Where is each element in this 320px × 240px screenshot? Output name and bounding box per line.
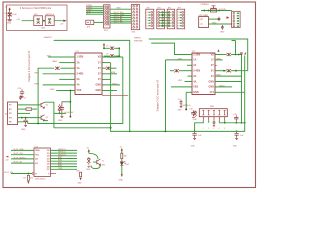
svg-text:O7: O7 bbox=[47, 169, 51, 171]
motor connector M1 bbox=[146, 7, 154, 28]
svg-text:GND: GND bbox=[193, 91, 199, 94]
svg-text:SLOT_SDA: SLOT_SDA bbox=[14, 148, 25, 151]
IC2 pin names left column bbox=[193, 53, 200, 94]
junction bbox=[241, 122, 243, 124]
svg-text:P3: P3 bbox=[9, 113, 12, 115]
svg-text:O3: O3 bbox=[47, 158, 51, 160]
svg-text:M4A: M4A bbox=[217, 74, 222, 77]
wire X2 pin5 bbox=[18, 122, 28, 124]
svg-text:Q2: Q2 bbox=[46, 117, 49, 119]
wire 3-4EN bbox=[43, 73, 75, 75]
svg-text:2A: 2A bbox=[193, 64, 196, 67]
svg-text:C18: C18 bbox=[189, 109, 194, 111]
svg-text:SDA: SDA bbox=[35, 149, 40, 152]
svg-text:M1B: M1B bbox=[111, 72, 116, 74]
wire GND right bbox=[102, 84, 120, 86]
svg-text:Stepper 2 DC motor pwr #2: Stepper 2 DC motor pwr #2 bbox=[156, 79, 160, 111]
junction bbox=[165, 131, 167, 133]
wire right row5 bbox=[215, 75, 242, 77]
X2 pin labels bbox=[9, 105, 12, 124]
connector SV2 pins bbox=[133, 5, 138, 28]
wire SLOT_A1 bbox=[110, 18, 131, 20]
servo module box bbox=[7, 5, 68, 31]
wire bbox=[60, 67, 75, 69]
svg-text:AIN1: AIN1 bbox=[58, 156, 62, 159]
capacitor C16 bbox=[240, 53, 246, 56]
jumper SERV1-3 box bbox=[45, 16, 54, 26]
wire PWRGND riser bbox=[244, 56, 246, 123]
svg-text:BIN2: BIN2 bbox=[35, 83, 40, 85]
svg-text:GND: GND bbox=[119, 179, 124, 181]
wire left row8 bbox=[186, 91, 192, 93]
svg-text:4: 4 bbox=[219, 128, 220, 130]
wire bbox=[54, 112, 66, 114]
svg-text:VDD: VDD bbox=[47, 55, 52, 57]
wire OUT3 bbox=[51, 155, 78, 157]
wire SLOT_A0 bbox=[110, 16, 131, 18]
LED1 bbox=[120, 161, 126, 165]
svg-text:3: 3 bbox=[213, 128, 214, 130]
svg-text:4Y: 4Y bbox=[98, 78, 101, 81]
wire riser to VS bbox=[118, 48, 120, 57]
wire bbox=[201, 10, 232, 12]
wire JP2 to SV1 bbox=[94, 21, 104, 23]
svg-text:GND: GND bbox=[86, 169, 91, 171]
svg-text:GND2: GND2 bbox=[219, 85, 225, 87]
connector SV1 pin circles bbox=[105, 6, 109, 25]
svg-text:4A: 4A bbox=[193, 80, 196, 83]
wire right row2 bbox=[215, 59, 223, 61]
capacitor C17 under pin3 bbox=[213, 120, 216, 126]
svg-text:P5: P5 bbox=[9, 122, 12, 124]
wire IC2 feed riser bbox=[165, 60, 167, 131]
junction bbox=[208, 10, 210, 12]
wire PWM3 bbox=[86, 10, 104, 12]
junction bbox=[118, 55, 120, 57]
svg-text:VSS: VSS bbox=[77, 89, 82, 92]
svg-text:T1: T1 bbox=[102, 161, 104, 163]
wire left row6 bbox=[185, 81, 193, 83]
svg-text:SLOT_EN: SLOT_EN bbox=[114, 22, 124, 24]
junction bbox=[103, 47, 105, 49]
wire bbox=[22, 20, 34, 22]
svg-text:4Y: 4Y bbox=[211, 75, 214, 78]
svg-text:GND1: GND1 bbox=[112, 83, 118, 85]
svg-text:3-4EN: 3-4EN bbox=[77, 73, 84, 76]
IC2 pin names right column bbox=[208, 53, 214, 94]
resistor R11 bbox=[121, 153, 123, 158]
wire drop to star ground bbox=[185, 92, 187, 109]
wire SLOT_SDA bbox=[110, 15, 131, 17]
wire bbox=[54, 20, 63, 22]
svg-text:5V: 5V bbox=[5, 7, 8, 9]
net arrow +5V left bbox=[6, 156, 9, 158]
junction bbox=[21, 117, 23, 119]
svg-text:GND: GND bbox=[193, 119, 198, 121]
ground bbox=[87, 166, 90, 167]
connector SV1 box bbox=[104, 5, 111, 28]
wire GND2 right bbox=[102, 90, 117, 92]
svg-text:GND: GND bbox=[212, 22, 217, 24]
supply arrow +5V bbox=[9, 9, 11, 11]
svg-text:4A: 4A bbox=[77, 84, 80, 87]
wire right riser bbox=[241, 55, 243, 123]
wire bbox=[114, 55, 119, 57]
svg-text:E: E bbox=[35, 173, 37, 175]
wire 4Y bbox=[102, 78, 111, 80]
svg-text:SLOT_EN: SLOT_EN bbox=[4, 172, 13, 174]
wire base left bbox=[93, 161, 97, 163]
svg-text:.1uF: .1uF bbox=[198, 135, 203, 137]
svg-text:D2: D2 bbox=[106, 53, 108, 55]
wire left row3 bbox=[187, 64, 192, 66]
wire 1A bbox=[59, 62, 75, 64]
junction bbox=[129, 131, 131, 133]
resistor R9 bbox=[27, 175, 29, 180]
motor connector M2 bbox=[157, 7, 165, 28]
jumper SJ1 bbox=[211, 6, 217, 8]
svg-text:GND: GND bbox=[191, 146, 196, 148]
svg-text:3: 3 bbox=[178, 18, 179, 20]
junction bbox=[235, 70, 237, 72]
diode D2 bbox=[110, 54, 114, 58]
svg-text:D1: D1 bbox=[106, 46, 108, 48]
connector SV2 box bbox=[131, 5, 139, 30]
sheet frame bbox=[3, 2, 256, 188]
svg-text:GND: GND bbox=[50, 89, 55, 91]
svg-text:1A: 1A bbox=[77, 61, 80, 64]
wire bbox=[114, 47, 119, 49]
svg-text:VS: VS bbox=[211, 53, 215, 56]
jumper JP5 box bbox=[34, 16, 43, 26]
RN1 elements bbox=[202, 110, 225, 115]
diode D9 vertical bbox=[58, 104, 61, 111]
junction bbox=[236, 130, 238, 132]
wire diode row2 bbox=[104, 55, 111, 57]
svg-text:SV2: SV2 bbox=[132, 32, 137, 34]
svg-text:GND: GND bbox=[208, 86, 214, 89]
wires M2-M3 bbox=[159, 12, 171, 25]
junction bbox=[43, 20, 45, 22]
junction bbox=[244, 122, 246, 124]
svg-text:3-4EN: 3-4EN bbox=[193, 70, 200, 73]
svg-text:Q1: Q1 bbox=[46, 104, 49, 106]
svg-text:A1: A1 bbox=[35, 162, 39, 165]
net arrow +5V out bbox=[63, 20, 66, 22]
svg-text:VS: VS bbox=[98, 56, 102, 59]
svg-text:2: 2 bbox=[147, 15, 148, 17]
wire left row2 bbox=[166, 59, 193, 61]
capacitor C22 + ground bbox=[23, 118, 27, 127]
svg-text:1: 1 bbox=[178, 12, 179, 14]
svg-text:4: 4 bbox=[178, 20, 179, 22]
capacitor C21 lower right bbox=[234, 131, 238, 139]
svg-text:3Y: 3Y bbox=[211, 70, 214, 73]
svg-text:1: 1 bbox=[203, 128, 204, 130]
connector SV3 pins bbox=[233, 12, 235, 27]
wire SDA bbox=[86, 11, 104, 13]
wire right row8 bbox=[215, 91, 245, 93]
svg-text:3Y: 3Y bbox=[98, 73, 101, 76]
svg-text:SDA/SCL: SDA/SCL bbox=[44, 36, 53, 39]
capacitor C20 lower left bbox=[192, 131, 196, 139]
ground arrow bbox=[27, 181, 29, 184]
svg-text:JP2: JP2 bbox=[87, 26, 91, 28]
svg-text:GND: GND bbox=[58, 120, 63, 122]
svg-text:C5: C5 bbox=[178, 99, 180, 101]
IC2 pin stubs bbox=[190, 55, 217, 93]
wire OUT6 bbox=[51, 163, 78, 165]
wire SLOT_EN bbox=[11, 173, 32, 175]
junction bbox=[224, 122, 226, 124]
svg-text:C10: C10 bbox=[18, 88, 23, 90]
svg-text:+5V: +5V bbox=[5, 159, 9, 161]
svg-text:1A: 1A bbox=[193, 59, 196, 62]
wire PWRGND to IC2 pin1 bbox=[151, 43, 192, 54]
jumper JP5 contacts bbox=[37, 18, 40, 24]
svg-text:BIN1: BIN1 bbox=[58, 162, 62, 164]
junction bbox=[194, 130, 196, 132]
svg-text:1N4148 4x: 1N4148 4x bbox=[181, 105, 190, 107]
wire pin5 bbox=[224, 120, 226, 123]
svg-text:SLOT_SCL: SLOT_SCL bbox=[14, 153, 24, 155]
junction (red) bbox=[185, 108, 187, 110]
svg-text:C6: C6 bbox=[23, 97, 26, 99]
svg-text:SERV1-3: SERV1-3 bbox=[45, 14, 54, 16]
wire OUT5 bbox=[51, 160, 78, 162]
svg-text:6: 6 bbox=[178, 26, 179, 28]
svg-text:330: 330 bbox=[124, 156, 127, 158]
wire Q1-Q2 collectors bbox=[44, 102, 54, 128]
wire right row1 + diode D7 bbox=[215, 54, 227, 56]
svg-text:2: 2 bbox=[208, 128, 209, 130]
svg-text:O2: O2 bbox=[47, 156, 51, 158]
junction bbox=[238, 54, 240, 56]
capacitor C8 bbox=[218, 17, 221, 21]
svg-text:74HC4051D: 74HC4051D bbox=[35, 178, 47, 180]
wire 2A with corner bbox=[38, 68, 54, 123]
junction bbox=[235, 54, 237, 56]
wire left row4 + diode D6 bbox=[170, 70, 174, 72]
svg-text:PWR5V: PWR5V bbox=[134, 38, 141, 40]
junction bbox=[28, 173, 30, 175]
wire X2 pin4 bbox=[18, 117, 41, 119]
svg-text:1-2EN: 1-2EN bbox=[77, 56, 84, 59]
svg-text:BIN2: BIN2 bbox=[58, 165, 62, 167]
wire X2 pin3 bbox=[18, 112, 31, 114]
wire bbox=[121, 166, 123, 174]
wire SCL bbox=[86, 13, 104, 15]
svg-text:V: V bbox=[48, 173, 50, 175]
junction bbox=[218, 10, 220, 12]
wire OUT8 bbox=[51, 168, 78, 170]
capacitor C11 bbox=[60, 102, 64, 118]
svg-text:2: 2 bbox=[178, 15, 179, 17]
wire V pin red stub bbox=[51, 173, 57, 175]
wire GND bbox=[110, 8, 131, 10]
svg-text:SLOT_A0/SCL: SLOT_A0/SCL bbox=[14, 156, 27, 159]
wire from SV3 down bbox=[232, 41, 236, 55]
jumper SERV1-3 contacts bbox=[48, 18, 51, 24]
wire left row5 bbox=[188, 75, 193, 77]
wire SLOT_EN bbox=[110, 22, 131, 24]
pack pin numbers bbox=[203, 128, 225, 130]
svg-text:SERVO2: SERVO2 bbox=[58, 152, 66, 154]
svg-text:GND: GND bbox=[21, 129, 26, 131]
svg-text:10k: 10k bbox=[30, 178, 33, 180]
svg-text:2Y: 2Y bbox=[211, 64, 214, 67]
svg-text:5: 5 bbox=[178, 23, 179, 25]
IC1 pin stubs bbox=[73, 57, 104, 91]
svg-text:2N2: 2N2 bbox=[102, 164, 105, 166]
svg-text:BIN1: BIN1 bbox=[35, 72, 40, 74]
wire pin1 bbox=[195, 120, 204, 131]
junction bbox=[203, 10, 205, 12]
junction bbox=[118, 47, 120, 49]
svg-text:1Y: 1Y bbox=[211, 59, 214, 62]
svg-text:LED: LED bbox=[126, 164, 130, 166]
svg-text:M3A: M3A bbox=[217, 57, 222, 60]
wire SLOT_A1 bbox=[11, 162, 34, 164]
wire pin2 bbox=[208, 120, 210, 123]
svg-text:AIN1: AIN1 bbox=[53, 60, 58, 63]
transistor Q2 bbox=[41, 115, 44, 121]
svg-text:AIN2: AIN2 bbox=[58, 159, 62, 162]
wire OUT7 bbox=[51, 166, 78, 168]
ground bbox=[7, 20, 11, 21]
wire OUT1 bbox=[51, 149, 78, 151]
wire 3Y bbox=[102, 73, 117, 75]
svg-text:GND: GND bbox=[77, 182, 82, 184]
svg-text:GND: GND bbox=[41, 27, 46, 29]
RN1 pin stubs bbox=[203, 117, 224, 121]
svg-text:5: 5 bbox=[147, 23, 148, 25]
svg-text:3A: 3A bbox=[77, 78, 80, 81]
svg-text:1Y: 1Y bbox=[98, 61, 101, 64]
wire net VMOT long bbox=[54, 40, 130, 131]
svg-text:A0: A0 bbox=[35, 158, 39, 161]
wire right row6 bbox=[215, 81, 242, 83]
wire 4A bbox=[43, 84, 75, 86]
wire bbox=[9, 12, 11, 14]
svg-text:3 Servos on Slot PWM pins: 3 Servos on Slot PWM pins bbox=[20, 6, 52, 10]
capacitor C23 above bbox=[19, 95, 22, 100]
svg-text:5V: 5V bbox=[87, 147, 90, 149]
svg-text:GND: GND bbox=[220, 31, 225, 33]
motor connector M3 bbox=[167, 7, 175, 28]
wire bbox=[121, 159, 123, 162]
wire VSS/GND bbox=[56, 90, 75, 92]
svg-text:SCL: SCL bbox=[35, 155, 40, 157]
IC4 pin names bbox=[35, 149, 40, 175]
svg-text:.1uF: .1uF bbox=[240, 135, 245, 137]
transistor T1 bbox=[97, 159, 101, 165]
junction bbox=[37, 123, 39, 125]
capacitor C9 bbox=[221, 25, 224, 30]
wire emitter arc to gnd bbox=[91, 165, 100, 169]
wire arc to transistor bbox=[89, 153, 98, 159]
wire motor rail A bbox=[111, 63, 245, 132]
wire SLOT_SCL bbox=[110, 13, 131, 15]
svg-text:SERVO1: SERVO1 bbox=[58, 149, 66, 151]
svg-text:GND: GND bbox=[178, 110, 183, 112]
svg-text:O6: O6 bbox=[47, 166, 51, 168]
wire PWR5V top rail bbox=[149, 39, 248, 71]
wire OUT4 bbox=[51, 158, 78, 160]
IC1 pin names right column bbox=[95, 56, 101, 92]
wire 1Y bbox=[102, 62, 111, 64]
junction bbox=[59, 113, 61, 115]
wire X2 pin1 bbox=[18, 104, 41, 106]
wire PWM2 bbox=[86, 8, 104, 10]
svg-text:GND: GND bbox=[95, 89, 101, 92]
svg-text:CIN2: CIN2 bbox=[178, 80, 183, 82]
svg-text:C19: C19 bbox=[233, 114, 238, 116]
ground arrow bbox=[80, 178, 82, 181]
wire SLOT_SDA bbox=[11, 149, 34, 151]
svg-text:+5V: +5V bbox=[16, 19, 20, 21]
svg-text:GND: GND bbox=[208, 80, 214, 83]
svg-text:4: 4 bbox=[147, 20, 148, 22]
connector SV3 box bbox=[232, 11, 241, 27]
supply arrow +5V above IC1 bbox=[103, 43, 105, 46]
polarity mark bbox=[227, 16, 230, 19]
svg-text:6: 6 bbox=[147, 26, 148, 28]
svg-text:PWRGND: PWRGND bbox=[134, 41, 143, 43]
svg-text:GND: GND bbox=[116, 8, 121, 10]
svg-text:1: 1 bbox=[147, 12, 148, 14]
svg-text:P4: P4 bbox=[9, 116, 12, 119]
wire PWM1 bbox=[86, 6, 104, 8]
value line under IC1 bbox=[102, 94, 128, 96]
svg-text:5V: 5V bbox=[120, 147, 123, 149]
wire 3A bbox=[59, 78, 75, 80]
svg-text:GND: GND bbox=[95, 84, 101, 87]
junctions on M2-M3 wires bbox=[162, 14, 163, 15]
wire bbox=[43, 20, 46, 22]
svg-text:O0: O0 bbox=[47, 150, 51, 152]
wire jack pin1 bbox=[208, 18, 219, 20]
transistor Q1 bbox=[41, 102, 44, 108]
svg-text:O5: O5 bbox=[47, 164, 51, 166]
svg-text:2Y4: 2Y4 bbox=[210, 91, 215, 94]
IC1 pin names left column bbox=[77, 56, 84, 92]
supply arrow above IC2 bbox=[217, 49, 219, 52]
diode D5 bbox=[55, 67, 60, 70]
wire SLOT_A2 bbox=[110, 20, 131, 22]
wire diode row1 bbox=[104, 45, 110, 48]
svg-text:O4: O4 bbox=[47, 160, 51, 163]
svg-text:P2: P2 bbox=[9, 109, 12, 111]
svg-text:5: 5 bbox=[224, 128, 225, 130]
svg-text:PWRSEL: PWRSEL bbox=[201, 4, 210, 6]
wire SLOT_SCL bbox=[11, 154, 34, 156]
wire 2Y + diode D3 bbox=[102, 67, 106, 69]
svg-text:O1: O1 bbox=[47, 153, 51, 155]
junction bbox=[25, 117, 27, 119]
svg-text:Stepper 1 DC motor pwr #1: Stepper 1 DC motor pwr #1 bbox=[27, 50, 31, 82]
wire right row7 bbox=[215, 86, 232, 88]
svg-text:SV1: SV1 bbox=[104, 30, 109, 32]
svg-text:3: 3 bbox=[147, 18, 148, 20]
wire motor rail B bbox=[28, 57, 123, 124]
wire X2 pin2 + resistor R2 bbox=[18, 108, 27, 110]
svg-text:5V/VIN: 5V/VIN bbox=[219, 9, 226, 11]
svg-text:3A: 3A bbox=[193, 75, 196, 78]
wire VS bbox=[102, 56, 123, 58]
wire spur to transistors bbox=[54, 127, 111, 129]
wire jack pin2 bbox=[208, 23, 231, 25]
